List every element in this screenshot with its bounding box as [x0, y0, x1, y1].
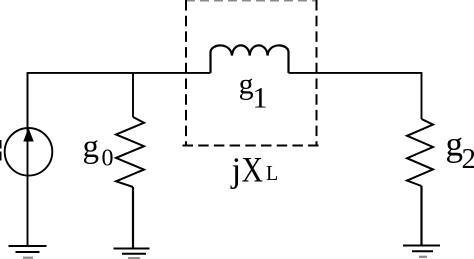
ground (under current source) [9, 246, 47, 258]
wire: g0 branch vertical from node to resistor [132, 73, 134, 117]
dashed box jXL (right edge) [316, 0, 318, 146]
ground (under resistor g0) [114, 249, 150, 259]
svg-text:2: 2 [462, 143, 474, 175]
dashed box jXL (bottom edge) [183, 145, 319, 147]
current source arrow (points up) [23, 128, 33, 142]
svg-text:1: 1 [253, 82, 268, 115]
svg-text:g: g [83, 129, 100, 165]
svg-text:g: g [446, 125, 464, 164]
svg-text:0: 0 [102, 146, 114, 172]
svg-text:g: g [239, 68, 254, 101]
dashed box jXL (left edge) [185, 0, 187, 146]
ground (under resistor g2) [403, 246, 440, 257]
wire: below resistor g2 to ground [420, 186, 422, 246]
dashed box jXL (top edge, clipped gray) [186, 0, 316, 2]
svg-text:L: L [266, 161, 278, 185]
wire: through current source down to ground [27, 73, 29, 246]
svg-text:j: j [230, 151, 242, 190]
resistor g2 (zigzag) [407, 119, 433, 186]
wire: inductor right to g2 corner and down [289, 73, 422, 119]
inductor g1 (4 humps) [211, 45, 289, 73]
current source I [5, 128, 53, 176]
resistor g0 (zigzag) [116, 117, 144, 187]
clipped dashes at left image edge [0, 140, 2, 161]
wire: below resistor g0 to ground [132, 187, 134, 249]
wire: top left horizontal from source corner to inductor [28, 73, 211, 127]
svg-text:X: X [242, 150, 264, 190]
